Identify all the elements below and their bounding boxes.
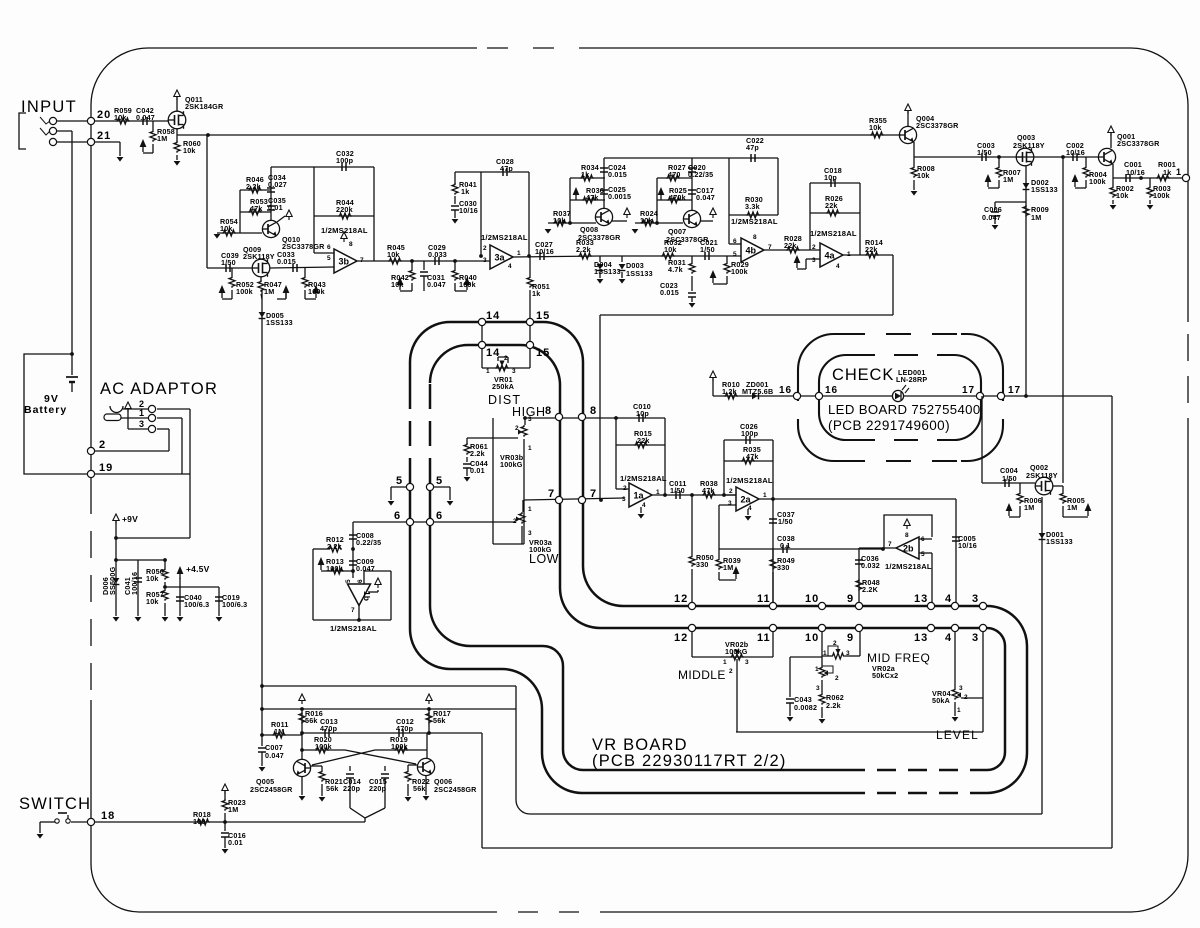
svg-text:4: 4 <box>748 505 752 512</box>
svg-text:0.015: 0.015 <box>660 288 679 297</box>
svg-text:4a: 4a <box>825 251 836 261</box>
svg-text:50kCx2: 50kCx2 <box>872 671 898 680</box>
svg-text:3: 3 <box>728 500 732 507</box>
svg-text:3: 3 <box>528 530 532 537</box>
svg-text:1k: 1k <box>532 289 540 298</box>
svg-text:10k: 10k <box>664 245 677 254</box>
svg-text:13: 13 <box>914 593 928 605</box>
svg-text:1/2MS218AL: 1/2MS218AL <box>885 562 932 571</box>
svg-text:10p: 10p <box>824 173 837 182</box>
svg-text:100k: 100k <box>1089 177 1106 186</box>
svg-text:1/50: 1/50 <box>221 258 236 267</box>
svg-text:1/2MS218AL: 1/2MS218AL <box>810 229 857 238</box>
svg-text:100k: 100k <box>391 742 408 751</box>
svg-text:6: 6 <box>436 510 443 522</box>
svg-text:1k: 1k <box>461 187 469 196</box>
svg-text:1: 1 <box>847 251 851 258</box>
svg-text:10k: 10k <box>391 280 404 289</box>
svg-text:0.1: 0.1 <box>780 541 791 550</box>
svg-text:LED BOARD 752755400: LED BOARD 752755400 <box>828 402 981 417</box>
svg-text:47k: 47k <box>702 486 715 495</box>
svg-text:2.2k: 2.2k <box>470 449 485 458</box>
svg-text:10k: 10k <box>183 146 196 155</box>
svg-text:220p: 220p <box>343 784 361 793</box>
svg-text:1: 1 <box>139 408 144 418</box>
svg-text:1/2MS218AL: 1/2MS218AL <box>726 476 773 485</box>
svg-text:3: 3 <box>622 496 626 503</box>
svg-text:6: 6 <box>357 579 364 583</box>
svg-text:100/16: 100/16 <box>130 572 139 595</box>
svg-text:3: 3 <box>528 416 532 423</box>
svg-text:8: 8 <box>545 405 552 417</box>
svg-text:10k: 10k <box>146 597 159 606</box>
svg-text:2: 2 <box>513 518 517 525</box>
svg-text:12: 12 <box>674 632 688 644</box>
svg-text:1/2MS218AL: 1/2MS218AL <box>481 233 528 242</box>
svg-text:7: 7 <box>888 541 892 548</box>
svg-text:16: 16 <box>779 385 792 396</box>
svg-text:10k: 10k <box>640 216 653 225</box>
svg-text:3a: 3a <box>495 253 506 263</box>
svg-text:4: 4 <box>836 263 840 270</box>
svg-text:12: 12 <box>674 593 688 605</box>
svg-text:MIDDLE: MIDDLE <box>678 668 726 682</box>
svg-text:8: 8 <box>753 234 757 241</box>
svg-text:1/50: 1/50 <box>700 245 715 254</box>
svg-text:100k: 100k <box>1153 191 1170 200</box>
svg-text:0.047: 0.047 <box>356 564 375 573</box>
svg-text:3: 3 <box>972 593 979 605</box>
svg-text:1M: 1M <box>264 287 274 296</box>
svg-text:7: 7 <box>768 244 772 251</box>
svg-text:0.01: 0.01 <box>228 838 243 847</box>
svg-text:2: 2 <box>515 425 519 432</box>
svg-text:1/50: 1/50 <box>670 486 685 495</box>
svg-text:5: 5 <box>396 475 403 487</box>
svg-text:2.2k: 2.2k <box>327 542 342 551</box>
svg-text:1: 1 <box>763 492 767 499</box>
svg-text:330: 330 <box>777 563 790 572</box>
svg-text:0.22/35: 0.22/35 <box>688 170 713 179</box>
svg-text:10p: 10p <box>636 409 649 418</box>
svg-text:22k: 22k <box>637 436 650 445</box>
svg-text:2SK184GR: 2SK184GR <box>185 102 224 111</box>
svg-text:AC ADAPTOR: AC ADAPTOR <box>100 380 218 398</box>
svg-text:4: 4 <box>508 263 512 270</box>
svg-text:100k: 100k <box>315 742 332 751</box>
svg-text:2SC2458GR: 2SC2458GR <box>250 785 293 794</box>
svg-text:0.047: 0.047 <box>427 280 446 289</box>
svg-text:100p: 100p <box>336 156 354 165</box>
svg-text:3: 3 <box>139 419 144 429</box>
svg-text:18: 18 <box>101 810 115 822</box>
svg-text:2: 2 <box>729 488 733 495</box>
svg-text:1M: 1M <box>157 134 167 143</box>
svg-text:10/16: 10/16 <box>958 541 977 550</box>
svg-text:4b: 4b <box>746 246 757 256</box>
svg-text:0.033: 0.033 <box>428 250 447 259</box>
svg-text:10/16: 10/16 <box>1066 148 1085 157</box>
svg-text:100k: 100k <box>459 280 476 289</box>
svg-text:5: 5 <box>436 475 443 487</box>
svg-text:100k: 100k <box>308 287 325 296</box>
svg-text:14: 14 <box>486 347 500 359</box>
svg-text:10k: 10k <box>387 250 400 259</box>
svg-text:10/16: 10/16 <box>1126 168 1145 177</box>
svg-text:2: 2 <box>964 694 968 701</box>
svg-text:470: 470 <box>668 170 681 179</box>
svg-text:0.015: 0.015 <box>277 257 296 266</box>
svg-text:20: 20 <box>97 109 111 121</box>
svg-text:1M: 1M <box>1067 503 1077 512</box>
svg-text:3: 3 <box>745 659 749 666</box>
svg-text:1/2MS218AL: 1/2MS218AL <box>321 226 368 235</box>
svg-text:100k: 100k <box>326 564 343 573</box>
svg-text:10/16: 10/16 <box>535 247 554 256</box>
svg-text:3: 3 <box>483 257 487 264</box>
svg-text:3b: 3b <box>339 257 350 267</box>
svg-text:3: 3 <box>959 685 963 692</box>
svg-text:7: 7 <box>590 488 597 500</box>
svg-text:7: 7 <box>548 488 555 500</box>
svg-text:0.0082: 0.0082 <box>794 703 817 712</box>
svg-text:10/16: 10/16 <box>459 206 478 215</box>
svg-text:+4.5V: +4.5V <box>186 564 210 574</box>
svg-text:1M: 1M <box>1024 503 1034 512</box>
svg-text:(PCB 2291749600): (PCB 2291749600) <box>828 418 950 433</box>
svg-text:Battery: Battery <box>24 404 67 416</box>
svg-text:10k: 10k <box>1116 191 1129 200</box>
svg-text:330: 330 <box>696 560 709 569</box>
svg-text:56k: 56k <box>326 784 339 793</box>
svg-text:100kG: 100kG <box>500 460 523 469</box>
svg-text:1/50: 1/50 <box>778 517 793 526</box>
svg-text:9: 9 <box>847 593 854 605</box>
svg-text:SS500G: SS500G <box>108 566 117 595</box>
svg-text:1: 1 <box>528 445 532 452</box>
svg-text:15: 15 <box>536 310 550 322</box>
svg-text:0.047: 0.047 <box>982 213 1001 222</box>
svg-text:3: 3 <box>812 257 816 264</box>
svg-text:47k: 47k <box>250 204 263 213</box>
svg-text:10k: 10k <box>146 574 159 583</box>
svg-text:2: 2 <box>812 244 816 251</box>
svg-text:100: 100 <box>193 817 206 826</box>
svg-text:50kA: 50kA <box>932 696 950 705</box>
svg-text:2b: 2b <box>903 544 914 554</box>
svg-text:1/2MS218AL: 1/2MS218AL <box>330 624 377 633</box>
svg-text:3: 3 <box>816 685 820 692</box>
svg-text:470k: 470k <box>669 193 686 202</box>
svg-text:MTZ5.6B: MTZ5.6B <box>742 387 773 396</box>
svg-text:100k: 100k <box>236 287 253 296</box>
svg-text:3: 3 <box>972 632 979 644</box>
svg-text:LOW: LOW <box>529 552 559 566</box>
svg-text:4: 4 <box>945 632 952 644</box>
svg-text:2SC3378GR: 2SC3378GR <box>1117 139 1160 148</box>
svg-text:10: 10 <box>805 593 819 605</box>
svg-text:0.047: 0.047 <box>136 113 155 122</box>
svg-text:2: 2 <box>835 675 839 682</box>
svg-text:22k: 22k <box>784 241 797 250</box>
svg-text:MID FREQ: MID FREQ <box>867 651 930 665</box>
svg-text:5: 5 <box>921 551 925 558</box>
svg-text:7: 7 <box>360 257 364 264</box>
svg-text:1: 1 <box>723 659 727 666</box>
svg-text:+9V: +9V <box>122 514 138 524</box>
svg-text:4: 4 <box>642 502 646 509</box>
svg-text:17: 17 <box>1008 385 1021 396</box>
svg-text:15: 15 <box>536 347 550 359</box>
svg-text:22k: 22k <box>825 201 838 210</box>
svg-text:2: 2 <box>729 668 733 675</box>
svg-text:1: 1 <box>1176 167 1181 177</box>
svg-text:0.01: 0.01 <box>470 466 485 475</box>
svg-text:6: 6 <box>394 510 401 522</box>
svg-text:1M: 1M <box>723 563 733 572</box>
svg-text:1SS133: 1SS133 <box>266 318 293 327</box>
svg-text:0.047: 0.047 <box>265 751 284 760</box>
svg-text:INPUT: INPUT <box>21 98 77 116</box>
svg-text:2SC3378GR: 2SC3378GR <box>578 233 621 242</box>
svg-text:10k: 10k <box>553 216 566 225</box>
svg-text:10k: 10k <box>869 123 882 132</box>
svg-text:2.2k: 2.2k <box>246 182 261 191</box>
svg-text:0.047: 0.047 <box>696 193 715 202</box>
svg-text:17: 17 <box>962 385 975 396</box>
svg-text:56k: 56k <box>305 716 318 725</box>
svg-text:1SS133: 1SS133 <box>1031 185 1058 194</box>
svg-text:220p: 220p <box>369 784 387 793</box>
svg-text:2SC2458GR: 2SC2458GR <box>434 785 477 794</box>
svg-text:SWITCH: SWITCH <box>19 795 91 813</box>
svg-text:2: 2 <box>483 245 487 252</box>
svg-text:16: 16 <box>825 385 838 396</box>
svg-text:CHECK: CHECK <box>832 366 894 384</box>
svg-text:1: 1 <box>656 489 660 496</box>
svg-text:2.2K: 2.2K <box>862 585 879 594</box>
svg-text:5: 5 <box>327 255 331 262</box>
svg-text:0.027: 0.027 <box>268 180 287 189</box>
svg-text:10k: 10k <box>114 113 127 122</box>
svg-text:1/50: 1/50 <box>1002 474 1017 483</box>
svg-text:47k: 47k <box>586 193 599 202</box>
svg-text:6: 6 <box>327 244 331 251</box>
svg-text:0.22/35: 0.22/35 <box>356 538 381 547</box>
svg-text:100p: 100p <box>741 429 759 438</box>
svg-text:1: 1 <box>528 506 532 513</box>
svg-text:2: 2 <box>504 355 508 362</box>
svg-text:1/2MS218AL: 1/2MS218AL <box>731 217 778 226</box>
svg-text:7: 7 <box>351 607 355 614</box>
svg-text:2SK118Y: 2SK118Y <box>1026 471 1058 480</box>
svg-text:2.2k: 2.2k <box>826 701 841 710</box>
svg-text:11: 11 <box>757 632 771 644</box>
svg-text:19: 19 <box>99 462 113 474</box>
svg-text:470p: 470p <box>320 724 338 733</box>
svg-text:1: 1 <box>957 707 961 714</box>
svg-text:1: 1 <box>486 368 490 375</box>
svg-text:9: 9 <box>847 632 854 644</box>
svg-text:2: 2 <box>99 439 106 451</box>
svg-text:2: 2 <box>623 485 627 492</box>
svg-text:1M: 1M <box>228 805 238 814</box>
svg-text:3: 3 <box>846 650 850 657</box>
svg-text:5: 5 <box>733 251 737 258</box>
svg-text:2: 2 <box>833 640 837 647</box>
svg-text:LEVEL: LEVEL <box>936 728 979 742</box>
svg-text:0.032: 0.032 <box>861 561 880 570</box>
svg-text:6: 6 <box>921 536 925 543</box>
svg-text:1k: 1k <box>581 170 589 179</box>
svg-text:LN-28RP: LN-28RP <box>896 375 927 384</box>
svg-text:3: 3 <box>512 368 516 375</box>
svg-text:1SS133: 1SS133 <box>594 267 621 276</box>
svg-text:4: 4 <box>945 593 952 605</box>
svg-text:2SK118Y: 2SK118Y <box>243 252 275 261</box>
svg-text:8: 8 <box>590 405 597 417</box>
svg-text:1.2k: 1.2k <box>722 387 737 396</box>
svg-text:8: 8 <box>349 241 353 248</box>
svg-text:47k: 47k <box>746 452 759 461</box>
svg-text:1M: 1M <box>1031 213 1041 222</box>
svg-text:21: 21 <box>97 130 111 142</box>
svg-text:4.7k: 4.7k <box>668 265 683 274</box>
svg-text:10k: 10k <box>220 224 233 233</box>
svg-text:13: 13 <box>914 632 928 644</box>
svg-text:1: 1 <box>815 666 819 673</box>
svg-text:100/6.3: 100/6.3 <box>222 600 247 609</box>
svg-text:56k: 56k <box>433 716 446 725</box>
svg-text:1k: 1k <box>1163 168 1171 177</box>
svg-text:0.0015: 0.0015 <box>608 192 631 201</box>
svg-text:470p: 470p <box>396 724 414 733</box>
svg-text:10: 10 <box>805 632 819 644</box>
svg-text:1/50: 1/50 <box>977 148 992 157</box>
svg-text:250kA: 250kA <box>492 382 514 391</box>
svg-text:2SC3378GR: 2SC3378GR <box>916 121 959 130</box>
svg-text:0.015: 0.015 <box>608 170 627 179</box>
svg-text:6: 6 <box>733 238 737 245</box>
svg-text:0.01: 0.01 <box>268 203 283 212</box>
svg-text:1: 1 <box>517 250 521 257</box>
svg-text:(PCB 22930117RT 2/2): (PCB 22930117RT 2/2) <box>592 752 787 770</box>
svg-text:220k: 220k <box>336 205 353 214</box>
svg-text:14: 14 <box>486 310 500 322</box>
svg-text:2SK118Y: 2SK118Y <box>1013 141 1045 150</box>
svg-text:47p: 47p <box>500 164 513 173</box>
svg-text:3.3k: 3.3k <box>745 202 760 211</box>
svg-text:11: 11 <box>757 593 771 605</box>
svg-text:2a: 2a <box>741 495 752 505</box>
svg-text:100/6.3: 100/6.3 <box>184 600 209 609</box>
svg-text:2.2k: 2.2k <box>576 245 591 254</box>
svg-text:56k: 56k <box>413 784 426 793</box>
svg-text:5: 5 <box>345 579 352 583</box>
svg-text:47p: 47p <box>746 143 759 152</box>
svg-text:1SS133: 1SS133 <box>626 269 653 278</box>
svg-text:100k: 100k <box>731 267 748 276</box>
svg-text:1M: 1M <box>274 727 284 736</box>
svg-text:1: 1 <box>823 650 827 657</box>
svg-text:8: 8 <box>905 532 909 539</box>
svg-text:22k: 22k <box>865 245 878 254</box>
svg-text:1M: 1M <box>1003 175 1013 184</box>
svg-text:1a: 1a <box>634 491 645 501</box>
svg-text:100kG: 100kG <box>725 647 748 656</box>
svg-text:1SS133: 1SS133 <box>1046 537 1073 546</box>
svg-text:1/2MS218AL: 1/2MS218AL <box>620 474 667 483</box>
svg-text:10k: 10k <box>917 171 930 180</box>
